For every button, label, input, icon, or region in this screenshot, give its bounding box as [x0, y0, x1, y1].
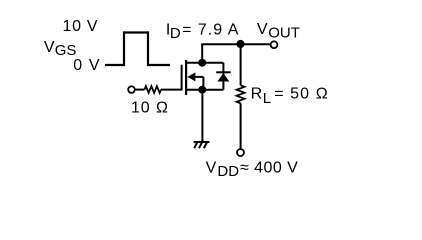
transistor Q1 gate bar: [181, 65, 183, 91]
svg-text:DD: DD: [217, 163, 239, 180]
wire output node to RL: [240, 44, 242, 85]
wire gate resistor to MOSFET gate: [161, 89, 182, 91]
svg-text:0 V: 0 V: [73, 57, 101, 74]
svg-text:R: R: [251, 86, 263, 103]
wire RL to VDD terminal: [240, 103, 242, 149]
node drain junction dot: [198, 59, 206, 67]
svg-text:10 V: 10 V: [63, 18, 99, 35]
transistor Q1 drain lead: [186, 62, 202, 64]
label VDD = 400 V: [206, 159, 299, 180]
transistor Q1 source lead: [186, 89, 202, 91]
label VOUT: [257, 21, 300, 41]
resistor RL 50 ohm (zigzag): [237, 85, 245, 103]
body diode D1: [216, 63, 230, 90]
wire drain node to VOUT terminal: [201, 43, 270, 45]
svg-text:= 7.9 A: = 7.9 A: [182, 22, 239, 39]
svg-text:D: D: [170, 25, 181, 42]
label 10 ohm (gate resistor value): [131, 99, 169, 116]
wire source to ground: [201, 90, 203, 142]
node output junction dot: [236, 40, 244, 48]
ground: [194, 142, 210, 148]
transistor Q1 channel bar: [185, 60, 187, 95]
svg-text:OUT: OUT: [268, 24, 300, 41]
svg-text:≈ 400 V: ≈ 400 V: [240, 159, 298, 176]
svg-text:V: V: [257, 21, 268, 38]
resistor RG 10 ohm (zigzag): [145, 86, 162, 93]
input terminal (open circle): [128, 86, 135, 93]
label 10 V (pulse high level): [63, 18, 99, 35]
wire input terminal to gate resistor: [135, 89, 145, 91]
body diode D1 branch top wire: [202, 62, 223, 64]
svg-text:V: V: [206, 159, 217, 176]
svg-text:= 50 Ω: = 50 Ω: [274, 86, 329, 103]
terminal VOUT (open circle): [271, 41, 278, 48]
node source junction dot: [198, 86, 206, 94]
label VGS: [44, 39, 76, 59]
body diode D1 branch bottom wire: [202, 89, 223, 91]
label ID = 7.9 A: [166, 22, 239, 43]
pulse waveform VGS drive: [105, 33, 170, 66]
terminal VDD (open circle): [237, 149, 244, 156]
label RL = 50 ohm: [251, 86, 329, 107]
svg-text:10 Ω: 10 Ω: [131, 99, 169, 116]
transistor Q1 body arrow: [187, 72, 203, 89]
wire drain up: [201, 44, 203, 63]
svg-text:L: L: [263, 90, 271, 107]
svg-text:V: V: [44, 39, 55, 56]
label 0 V (pulse low level): [73, 57, 101, 74]
